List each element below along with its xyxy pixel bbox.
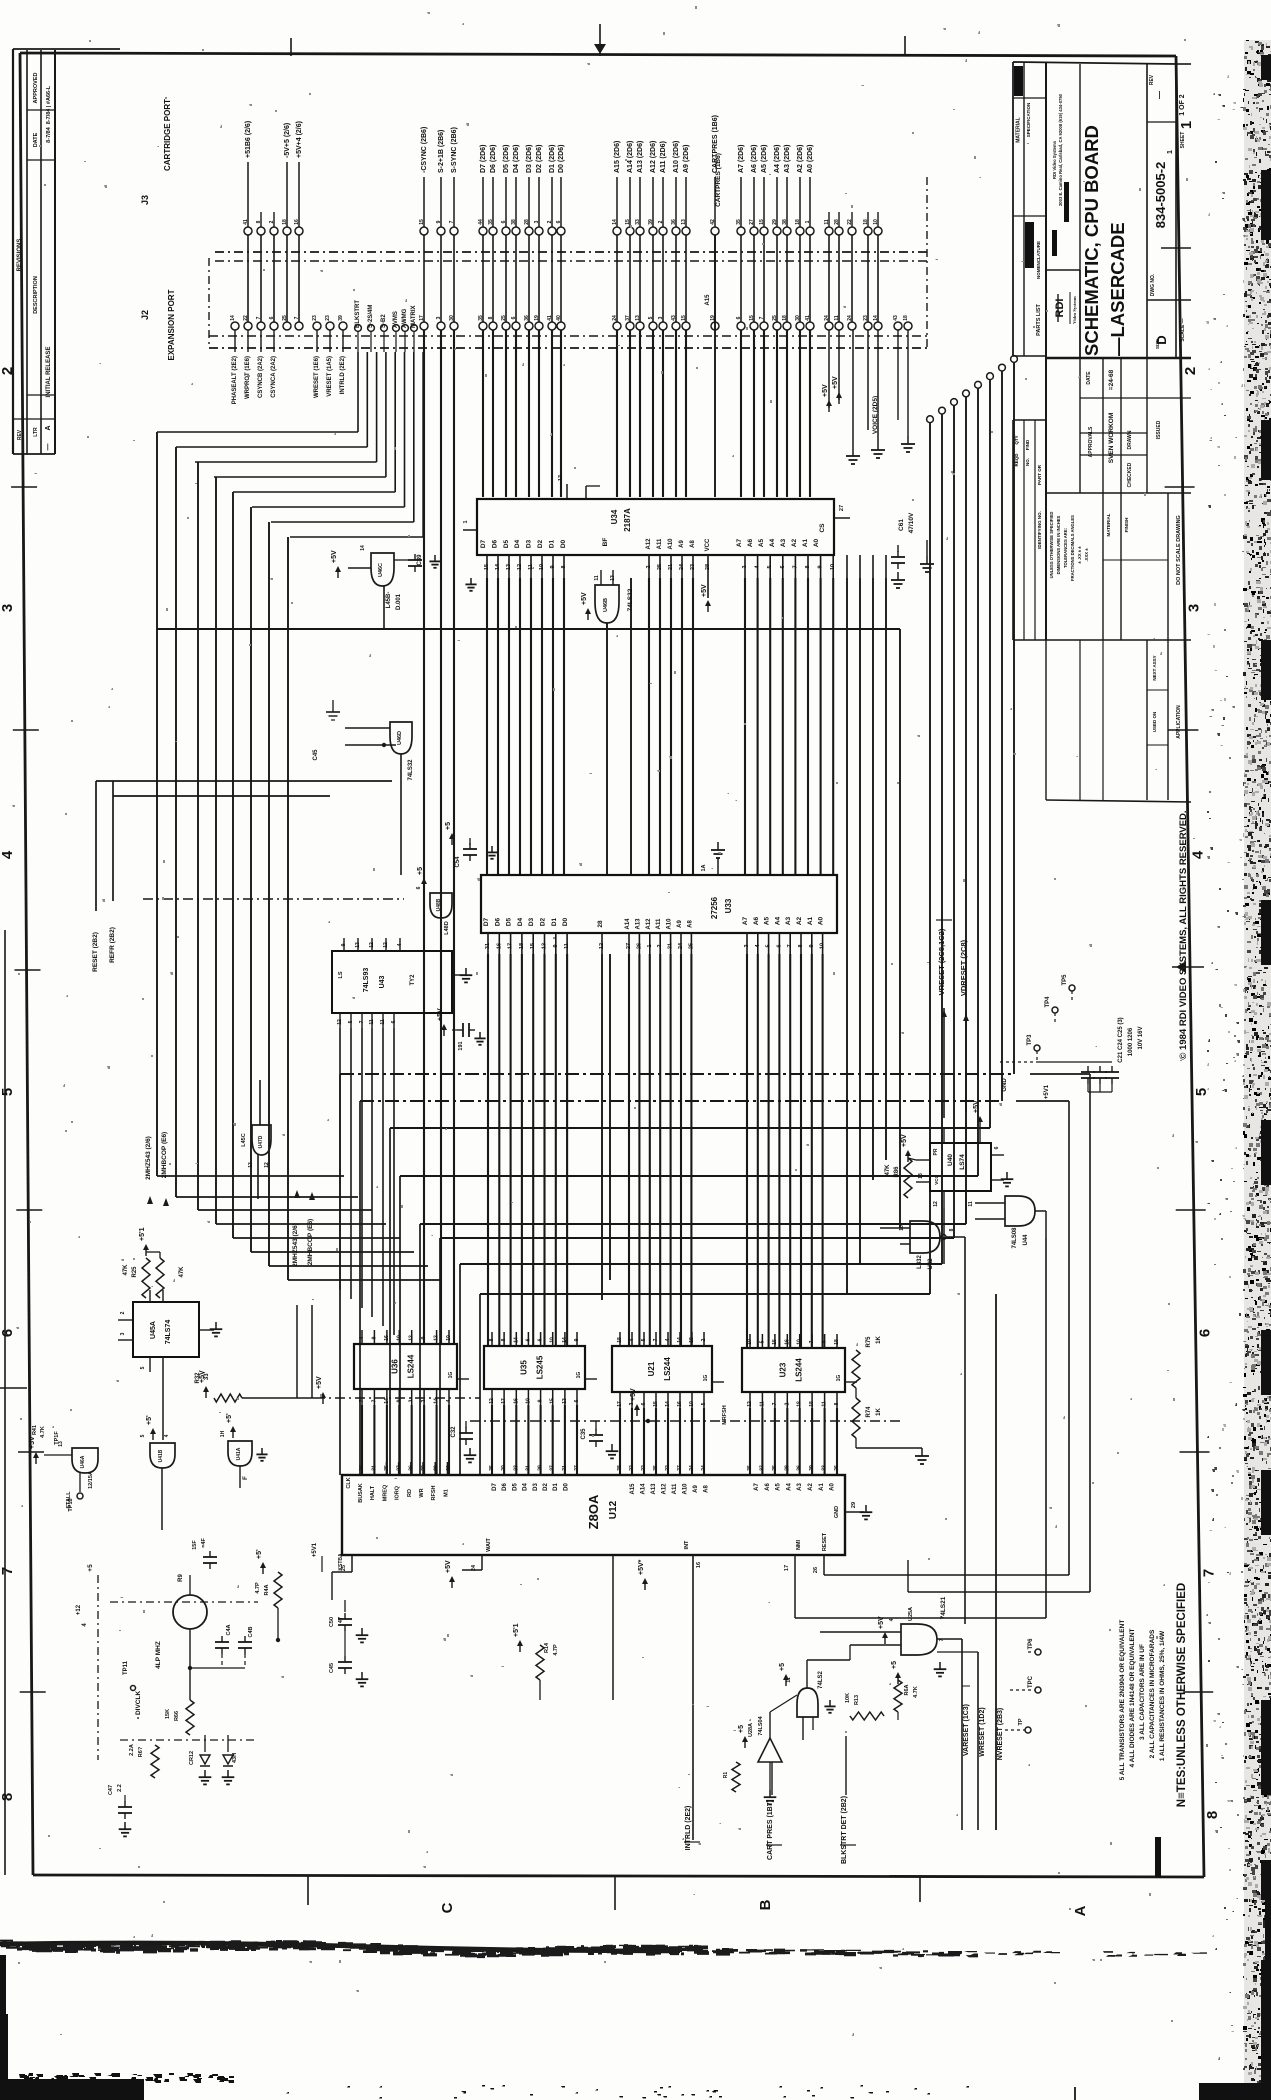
svg-text:S-SYNC (2B6): S-SYNC (2B6)	[451, 127, 458, 173]
svg-text:12: 12	[599, 943, 605, 949]
svg-text:3: 3	[409, 1399, 415, 1402]
svg-text:TP1F: TP1F	[54, 1431, 60, 1445]
svg-text:PR: PR	[933, 1148, 939, 1155]
svg-text:A8: A8	[704, 1485, 710, 1493]
svg-text:A14 (2D6): A14 (2D6)	[627, 141, 634, 173]
svg-text:74LS08: 74LS08	[1012, 1227, 1018, 1249]
svg-text:C: C	[439, 1902, 456, 1913]
svg-text:20: 20	[501, 1465, 507, 1471]
wire cartpres down	[714, 235, 716, 497]
svg-text:1G: 1G	[703, 1375, 709, 1382]
wire reset refr feed lines	[95, 781, 97, 911]
test point TP6	[1035, 1649, 1041, 1655]
svg-text:13: 13	[558, 475, 564, 481]
svg-text:+12: +12	[76, 1604, 82, 1615]
svg-text:DO NOT SCALE DRAWING: DO NOT SCALE DRAWING	[1176, 515, 1182, 585]
svg-text:15F: 15F	[192, 1540, 198, 1550]
svg-text:A2: A2	[796, 916, 803, 925]
svg-text:3: 3	[120, 1332, 126, 1335]
svg-text:A4: A4	[774, 916, 781, 925]
svg-text:INTRLD (2E2): INTRLD (2E2)	[340, 356, 346, 394]
svg-text:D0 (2D6): D0 (2D6)	[558, 145, 565, 173]
capacitor C45 bottom	[344, 1656, 346, 1662]
svg-text:47/10V: 47/10V	[908, 512, 915, 533]
svg-text:9: 9	[550, 565, 556, 568]
wires connector rows vertical joins	[247, 235, 249, 322]
svg-text:4.7P: 4.7P	[255, 1582, 261, 1594]
IC U21 LS244	[612, 1346, 712, 1392]
svg-text:3: 3	[744, 944, 750, 947]
svg-text:14: 14	[230, 315, 236, 321]
svg-text:20: 20	[421, 1465, 427, 1471]
svg-text:9: 9	[538, 1399, 544, 1402]
svg-text:A6 (2D6): A6 (2D6)	[751, 145, 758, 173]
svg-text:43: 43	[893, 315, 899, 321]
wire bundle address J2 to U34 right	[740, 330, 742, 497]
svg-text:1A: 1A	[701, 864, 707, 871]
U45A stubs	[149, 1290, 151, 1302]
svg-text:8: 8	[561, 565, 567, 568]
wire WRESET vertical	[977, 1652, 979, 1830]
or gate U47D	[797, 1688, 818, 1717]
svg-text:9: 9	[809, 944, 815, 947]
svg-text:U12: U12	[608, 1500, 619, 1519]
svg-text:1K: 1K	[876, 1335, 882, 1343]
wire bundle D bus U33 to U35	[487, 954, 489, 1346]
svg-text:STALL: STALL	[66, 1491, 72, 1509]
IC U34 2187A	[477, 499, 834, 555]
svg-text:TP11: TP11	[123, 1660, 129, 1675]
IC U45A 74LS74	[133, 1302, 199, 1357]
svg-text:1K: 1K	[876, 1407, 882, 1415]
svg-text:=4F: =4F	[201, 1538, 207, 1548]
svg-text:A5 (2D6): A5 (2D6)	[761, 145, 768, 173]
svg-text:U25A: U25A	[908, 1607, 914, 1621]
wire OE line	[630, 578, 632, 875]
svg-text:VCC: VCC	[934, 1175, 939, 1185]
svg-text:D2 (2D6): D2 (2D6)	[536, 145, 543, 173]
svg-text:8: 8	[1204, 1811, 1221, 1819]
svg-text:7: 7	[359, 1020, 365, 1023]
gate U41b	[150, 1443, 175, 1468]
svg-text:25: 25	[657, 564, 663, 570]
svg-text:NEXT ASSY: NEXT ASSY	[1152, 655, 1157, 680]
svg-text:15K: 15K	[165, 1709, 171, 1719]
svg-text:C45: C45	[329, 1663, 335, 1673]
svg-text:A10: A10	[668, 538, 674, 550]
wire bundle A high bypass right of U33	[846, 578, 848, 1294]
svg-text:VARESET (1C3): VARESET (1C3)	[963, 1704, 970, 1756]
bottom edge tick right	[1074, 2087, 1076, 2100]
svg-text:NMI: NMI	[796, 1539, 802, 1550]
svg-text:16: 16	[384, 1335, 390, 1341]
svg-text:12: 12	[337, 1019, 343, 1025]
svg-text:EXPANSION PORT: EXPANSION PORT	[167, 289, 176, 360]
+5V rail dash line mid	[470, 1420, 900, 1422]
U21 pin stubs	[619, 1332, 621, 1346]
svg-text:D7: D7	[492, 1483, 498, 1491]
svg-text:C50: C50	[329, 1617, 335, 1627]
svg-text:37: 37	[677, 1465, 683, 1471]
svg-text:4: 4	[359, 1336, 365, 1339]
wire bundle A bus U34 to U33	[744, 578, 746, 875]
svg-text:15: 15	[772, 1339, 778, 1345]
svg-text:2MHBCOP (E6): 2MHBCOP (E6)	[161, 1132, 168, 1178]
svg-text:10: 10	[689, 1401, 695, 1407]
svg-text:13: 13	[542, 943, 548, 949]
svg-text:22: 22	[629, 1465, 635, 1471]
wire U25A output	[937, 1638, 962, 1640]
svg-text:4: 4	[1189, 850, 1206, 859]
svg-text:4LP MHZ: 4LP MHZ	[155, 1641, 162, 1669]
resistor R86 47K	[904, 1158, 912, 1198]
U23 enable stub	[845, 1381, 857, 1383]
svg-text:BLKSTRT: BLKSTRT	[355, 300, 361, 328]
svg-text:LS74: LS74	[959, 1154, 966, 1170]
svg-text:C61: C61	[898, 519, 905, 531]
wire bundle data bus J2 to U34	[482, 330, 484, 497]
svg-text:A3: A3	[785, 916, 792, 925]
svg-text:RD: RD	[407, 1489, 413, 1497]
svg-text:28: 28	[597, 920, 604, 928]
svg-text:+5: +5	[738, 1725, 745, 1733]
svg-text:U41B: U41B	[158, 1449, 164, 1462]
svg-text:25: 25	[772, 1465, 778, 1471]
svg-text:A1: A1	[802, 538, 809, 547]
wire left nest top staircase	[157, 431, 358, 433]
svg-text:A6: A6	[747, 538, 754, 547]
svg-text:29: 29	[851, 1502, 857, 1508]
svg-text:A2: A2	[791, 538, 798, 547]
svg-text:4: 4	[665, 1338, 671, 1341]
svg-text:27: 27	[839, 505, 845, 511]
svg-text:27: 27	[626, 943, 632, 949]
svg-text:7: 7	[772, 1402, 778, 1405]
svg-text:+5V*: +5V*	[638, 1559, 645, 1575]
U21 enable stub	[712, 1381, 724, 1383]
svg-text:13: 13	[355, 942, 361, 948]
svg-text:9: 9	[574, 1338, 580, 1341]
svg-text:74LS21: 74LS21	[940, 1596, 947, 1619]
svg-text:10: 10	[830, 564, 836, 570]
svg-text:18: 18	[519, 943, 525, 949]
svg-text:R6A: R6A	[904, 1684, 910, 1695]
svg-text:A8: A8	[687, 920, 693, 928]
svg-text:5: 5	[348, 1020, 354, 1023]
svg-text:A10: A10	[667, 918, 673, 930]
svg-text:4: 4	[629, 1338, 635, 1341]
svg-text:DRAWN: DRAWN	[1127, 430, 1133, 449]
svg-text:R9: R9	[178, 1574, 184, 1582]
svg-text:C4A: C4A	[226, 1624, 232, 1635]
ground right of C39	[434, 555, 436, 561]
svg-text:SHEET: SHEET	[1180, 132, 1186, 149]
dash rail bottom left	[120, 1739, 258, 1741]
svg-text:A14: A14	[625, 918, 631, 930]
svg-text:R4A: R4A	[264, 1584, 270, 1595]
svg-text:U34: U34	[610, 509, 619, 524]
svg-text:6: 6	[776, 944, 782, 947]
svg-text:A11: A11	[672, 1483, 678, 1494]
svg-text:IORQ: IORQ	[395, 1485, 401, 1500]
svg-text:BLKSTRT DET (2B2): BLKSTRT DET (2B2)	[841, 1796, 848, 1864]
svg-text:D5: D5	[512, 1483, 518, 1491]
svg-text:U45A: U45A	[150, 1321, 157, 1339]
svg-text:1 ALL RESISTANCES IN OHMS, 25: 1 ALL RESISTANCES IN OHMS, 25%, 1/4W	[1159, 1630, 1166, 1761]
svg-text:6: 6	[538, 1338, 544, 1341]
bottom dotted marks	[286, 2085, 969, 2099]
svg-text:D3: D3	[533, 1483, 539, 1491]
+5V at connector right	[838, 330, 840, 400]
and gate U44	[1005, 1196, 1035, 1226]
svg-text:8: 8	[949, 1228, 955, 1231]
svg-text:J3: J3	[140, 195, 150, 205]
svg-text:2MHZ543 (2/6): 2MHZ543 (2/6)	[145, 1136, 152, 1180]
svg-text:U42: U42	[928, 1258, 934, 1270]
svg-text:+5'1: +5'1	[513, 1623, 520, 1637]
svg-text:2003 E. Camino Real, Carlsbad,: 2003 E. Camino Real, Carlsbad, CA 92008 …	[1058, 93, 1063, 206]
gate U41a	[228, 1441, 252, 1466]
svg-text:47K: 47K	[179, 1266, 185, 1278]
svg-text:7: 7	[809, 1340, 815, 1343]
svg-text:21: 21	[562, 1465, 568, 1471]
svg-text:A5: A5	[776, 1483, 782, 1491]
svg-text:8: 8	[0, 1793, 16, 1801]
svg-text:R75: R75	[866, 1336, 872, 1348]
svg-text:A9: A9	[679, 540, 685, 548]
svg-text:A5: A5	[758, 538, 765, 547]
svg-text:TP6: TP6	[1028, 1638, 1034, 1650]
svg-text:31: 31	[525, 1465, 531, 1471]
svg-text:74LS74: 74LS74	[165, 1320, 172, 1345]
Z80 wait stub	[481, 1555, 483, 1570]
svg-text:47: 47	[338, 1617, 344, 1623]
svg-text:7: 7	[787, 944, 793, 947]
IC U33 27256	[481, 875, 837, 933]
svg-text:191: 191	[458, 1041, 464, 1050]
svg-text:LS: LS	[338, 971, 344, 978]
wire bundle video signals long verticals	[423, 330, 425, 1344]
IC U12 Z80A CPU	[342, 1475, 845, 1555]
test points TP3 TP4 TP5	[1034, 1045, 1040, 1051]
svg-text:A12: A12	[662, 1483, 668, 1495]
svg-text:LS244: LS244	[407, 1354, 416, 1378]
wire vertical to U42 nand	[899, 629, 901, 1228]
svg-text:WRPROT (1E6): WRPROT (1E6)	[245, 356, 251, 399]
svg-text:1G: 1G	[836, 1375, 842, 1382]
svg-text:-5V+5 (2/6): -5V+5 (2/6)	[284, 123, 291, 158]
svg-text:74LS93: 74LS93	[363, 968, 370, 993]
svg-text:+5V: +5V	[901, 1134, 908, 1147]
svg-text:NO.: NO.	[1025, 458, 1030, 466]
svg-text:28: 28	[784, 1465, 790, 1471]
svg-text:8: 8	[501, 1338, 507, 1341]
svg-text:A4: A4	[769, 538, 776, 547]
svg-text:8: 8	[489, 1338, 495, 1341]
right edge bottom solid line	[1265, 1895, 1271, 2100]
svg-text:A2 (2D6): A2 (2D6)	[797, 145, 804, 173]
U34 top stubs	[566, 484, 568, 499]
svg-text:APPROVALS: APPROVALS	[1088, 426, 1094, 457]
svg-text:VDRESET (2C8): VDRESET (2C8)	[959, 939, 968, 996]
svg-text:18: 18	[617, 1337, 623, 1343]
svg-text:.XXX ±: .XXX ±	[1084, 548, 1089, 562]
svg-text:+5V: +5V	[445, 1560, 452, 1573]
svg-text:6: 6	[0, 1329, 16, 1337]
black blob bottom right corner	[1199, 2083, 1271, 2100]
svg-text:11: 11	[759, 1401, 765, 1407]
svg-text:D4: D4	[523, 1483, 529, 1491]
svg-text:2MHZ543 (2/6): 2MHZ543 (2/6)	[292, 1223, 299, 1267]
svg-text:28: 28	[705, 564, 711, 570]
svg-text:A12: A12	[646, 538, 652, 550]
svg-text:R13: R13	[854, 1695, 860, 1705]
zone ticks bottom edge	[307, 1875, 309, 1905]
svg-text:B: B	[757, 1899, 774, 1910]
svg-text:CR12: CR12	[189, 1751, 195, 1765]
svg-text:D0: D0	[560, 539, 567, 548]
svg-text:1: 1	[647, 944, 653, 947]
svg-text:CART PRES (1B7): CART PRES (1B7)	[767, 1800, 774, 1860]
U34 chip select stub	[834, 517, 850, 519]
svg-text:D1: D1	[553, 1483, 559, 1491]
svg-text:3: 3	[0, 604, 16, 612]
svg-text:12: 12	[409, 1335, 415, 1341]
svg-text:PHASEALT (2E2): PHASEALT (2E2)	[232, 356, 238, 404]
svg-text:8: 8	[805, 565, 811, 568]
svg-text:REV: REV	[17, 429, 23, 440]
svg-text:29: 29	[538, 1465, 544, 1471]
wire U46d output down	[400, 754, 402, 875]
wire U44 inputs	[975, 1202, 1005, 1204]
svg-text:A3: A3	[797, 1483, 803, 1491]
svg-text:R86: R86	[894, 1166, 900, 1178]
voice output label	[867, 330, 869, 430]
upper connector stub wires and signal labels	[247, 162, 249, 227]
zone ticks top edge	[290, 38, 292, 56]
svg-text:7: 7	[359, 1399, 365, 1402]
svg-text:U46B: U46B	[603, 598, 609, 612]
svg-text:23: 23	[312, 315, 318, 321]
black blob bottom left corner	[0, 2079, 144, 2100]
svg-text:USED ON: USED ON	[1152, 712, 1157, 733]
svg-text:FIND: FIND	[1025, 439, 1030, 450]
svg-text:10: 10	[525, 1398, 531, 1404]
svg-text:A11 (2D6): A11 (2D6)	[660, 141, 667, 173]
svg-text:26: 26	[636, 943, 642, 949]
wire right long verticals mid	[1045, 1238, 1047, 1618]
svg-text:4.7K: 4.7K	[40, 1426, 46, 1438]
svg-text:5: 5	[767, 565, 773, 568]
svg-text:L432: L432	[917, 1255, 923, 1269]
ground at connector right	[852, 330, 854, 448]
svg-text:—: —	[45, 444, 52, 451]
svg-text:10: 10	[396, 1335, 402, 1341]
svg-text:74LS32: 74LS32	[408, 759, 414, 781]
svg-text:A7: A7	[754, 1483, 760, 1491]
svg-text:TPC: TPC	[1028, 1675, 1034, 1688]
svg-text:RESET (2B2): RESET (2B2)	[92, 932, 99, 972]
svg-text:A15: A15	[705, 294, 711, 306]
ground right of U34	[926, 540, 928, 556]
sheet border frame	[20, 53, 1176, 56]
svg-text:C47: C47	[108, 1785, 114, 1795]
svg-text:2 ALL CAPACITANCES IN MICROFA: 2 ALL CAPACITANCES IN MICROFARADS	[1149, 1629, 1156, 1758]
svg-text:1H: 1H	[220, 1430, 226, 1437]
test point TPC	[1035, 1687, 1041, 1693]
wire U46d inputs	[345, 727, 390, 729]
svg-text:RDI: RDI	[1054, 299, 1066, 318]
svg-text:5: 5	[701, 1402, 707, 1405]
svg-text:11: 11	[594, 575, 600, 581]
svg-text:APPLICATION: APPLICATION	[1176, 705, 1182, 739]
test point TPD	[1025, 1727, 1031, 1733]
wire bundle right verticals from connector	[1013, 362, 1015, 1074]
svg-text:10K: 10K	[845, 1693, 851, 1703]
svg-text:U33: U33	[724, 898, 733, 913]
svg-text:N≡TES:UNLESS OTHERWISE SPECIFI: N≡TES:UNLESS OTHERWISE SPECIFIED	[1176, 1583, 1188, 1807]
svg-text:D2: D2	[540, 917, 547, 926]
ground right of U43	[452, 974, 466, 976]
svg-text:36: 36	[797, 1465, 803, 1471]
svg-text:TOLERANCES ARE:: TOLERANCES ARE:	[1063, 528, 1068, 568]
svg-text:10V 16V: 10V 16V	[1138, 1026, 1144, 1049]
svg-text:A1: A1	[819, 1483, 825, 1491]
svg-text:6: 6	[994, 1146, 1000, 1149]
svg-text:15: 15	[550, 1398, 556, 1404]
gate U46a left	[72, 1448, 98, 1473]
svg-text:9: 9	[818, 565, 824, 568]
svg-text:D6: D6	[491, 539, 498, 548]
grounds under diodes	[204, 1770, 206, 1777]
svg-text:2: 2	[657, 944, 663, 947]
svg-text:+5V1: +5V1	[1044, 1084, 1050, 1099]
svg-text:6: 6	[391, 1020, 397, 1023]
svg-text:2MHBCOP (E6): 2MHBCOP (E6)	[307, 1219, 314, 1265]
oscillator Y2 crystal circle	[173, 1595, 207, 1629]
wire left long verticals	[156, 432, 158, 1176]
svg-text:A15 (2D6): A15 (2D6)	[614, 141, 621, 173]
svg-text:9: 9	[553, 944, 559, 947]
svg-text:25: 25	[688, 943, 694, 949]
wire U44 output	[1035, 1210, 1046, 1212]
+5V rail dash line left	[315, 1397, 480, 1399]
svg-text:4: 4	[397, 943, 403, 946]
svg-text:5: 5	[140, 1434, 146, 1437]
svg-text:15: 15	[653, 1401, 659, 1407]
svg-text:DESCRIPTION: DESCRIPTION	[33, 276, 39, 314]
svg-text:A8: A8	[690, 540, 696, 548]
svg-text:A7: A7	[736, 538, 743, 547]
svg-text:S-2+1B (2B6): S-2+1B (2B6)	[438, 130, 445, 173]
svg-text:U46D: U46D	[397, 731, 403, 745]
svg-text:33: 33	[822, 1465, 828, 1471]
svg-text:A: A	[45, 425, 52, 430]
svg-text:12/15A: 12/15A	[88, 1471, 94, 1489]
svg-text:6: 6	[525, 1338, 531, 1341]
wire dash bus left	[143, 898, 404, 900]
svg-text:FINISH: FINISH	[1124, 518, 1129, 533]
svg-text:C45: C45	[313, 749, 319, 761]
svg-text:A11: A11	[656, 918, 662, 929]
svg-text:R41: R41	[32, 1425, 38, 1435]
svg-text:3: 3	[1186, 604, 1203, 612]
title block second strip	[1012, 420, 1014, 640]
svg-text:15: 15	[484, 564, 490, 570]
svg-text:43H: 43H	[232, 1753, 238, 1763]
ground under R74	[856, 1447, 922, 1449]
svg-text:2: 2	[784, 1402, 790, 1405]
